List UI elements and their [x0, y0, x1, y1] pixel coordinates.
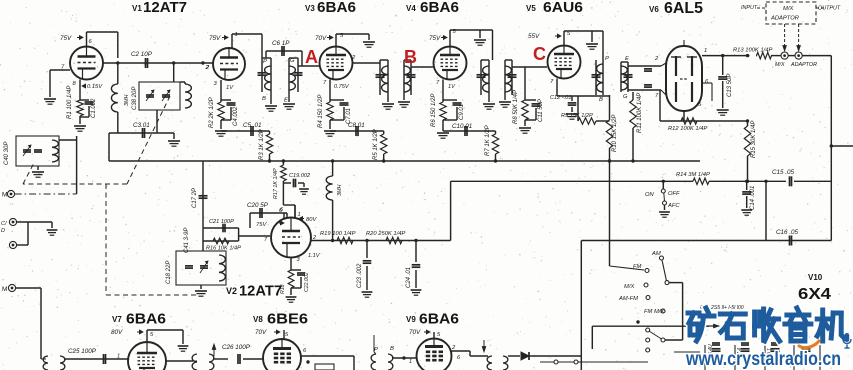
svg-text:80V: 80V	[111, 329, 123, 336]
svg-text:12AT7: 12AT7	[239, 283, 282, 300]
svg-text:6BA6: 6BA6	[317, 0, 356, 16]
svg-text:C14 .001: C14 .001	[750, 186, 756, 210]
svg-text:V9: V9	[406, 315, 416, 324]
svg-text:INPUT: INPUT	[741, 5, 758, 11]
svg-text:AM-FM: AM-FM	[618, 296, 638, 302]
svg-text:C11 50P: C11 50P	[538, 99, 544, 122]
svg-text:3MH: 3MH	[337, 185, 343, 196]
svg-text:1: 1	[117, 354, 120, 360]
svg-text:C5 .01: C5 .01	[243, 122, 262, 129]
svg-text:E: E	[625, 56, 629, 62]
svg-text:C16 .05: C16 .05	[776, 229, 799, 236]
svg-text:6BA6: 6BA6	[420, 0, 459, 16]
svg-text:75V: 75V	[256, 222, 267, 228]
svg-text:R3 1K 1/2P: R3 1K 1/2P	[259, 129, 265, 160]
svg-text:6AU6: 6AU6	[543, 0, 583, 16]
svg-text:70V: 70V	[315, 35, 327, 42]
svg-text:12AT7: 12AT7	[143, 0, 187, 16]
svg-text:M: M	[2, 192, 7, 199]
svg-text:B: B	[599, 97, 603, 103]
svg-text:www.crystalradio.cn: www.crystalradio.cn	[685, 348, 841, 370]
svg-text:R17 1K 1/4P: R17 1K 1/4P	[273, 168, 279, 199]
svg-text:75V: 75V	[209, 35, 221, 42]
svg-text:C2 10P: C2 10P	[131, 51, 153, 58]
svg-text:3MH: 3MH	[124, 95, 130, 106]
svg-text:ON: ON	[645, 192, 655, 198]
svg-text:C10.01: C10.01	[452, 123, 472, 130]
svg-text:R20 250K 1/4P: R20 250K 1/4P	[366, 231, 405, 237]
svg-text:R8 50K 1/4P: R8 50K 1/4P	[513, 90, 519, 124]
svg-text:C38 20P: C38 20P	[132, 87, 138, 110]
svg-text:R1 100 1/4P: R1 100 1/4P	[67, 86, 73, 119]
svg-text:0.15V: 0.15V	[87, 84, 103, 90]
svg-text:C17 2P: C17 2P	[192, 188, 198, 208]
svg-text:C3.01: C3.01	[133, 122, 150, 129]
svg-text:M/X: M/X	[783, 6, 794, 12]
svg-text:R4 150 1/2P: R4 150 1/2P	[318, 95, 324, 128]
svg-text:R11 100K 1/4P: R11 100K 1/4P	[637, 93, 643, 133]
svg-text:75V: 75V	[60, 35, 72, 42]
svg-text:C41 3-9P: C41 3-9P	[184, 228, 190, 253]
svg-text:V10: V10	[808, 273, 823, 282]
svg-text:80V: 80V	[306, 217, 317, 223]
svg-text:C23 .002: C23 .002	[357, 263, 363, 288]
svg-text:B: B	[390, 346, 394, 352]
svg-text:V2: V2	[226, 286, 237, 296]
svg-text:R6 150 1/2P: R6 150 1/2P	[431, 94, 437, 127]
svg-text:1: 1	[235, 32, 238, 38]
svg-text:R19 100 1/4P: R19 100 1/4P	[320, 231, 356, 237]
svg-text:B: B	[262, 96, 266, 102]
svg-text:70V: 70V	[255, 329, 267, 336]
svg-text:B: B	[404, 47, 417, 67]
svg-text:C4.002: C4.002	[233, 106, 239, 126]
svg-text:R7 1K 1/2P: R7 1K 1/2P	[485, 125, 491, 156]
svg-text:V5: V5	[526, 4, 536, 13]
svg-text:C22.002: C22.002	[304, 272, 310, 292]
svg-text:R10 15K 1/2P: R10 15K 1/2P	[612, 115, 618, 152]
svg-text:C20 5P: C20 5P	[247, 202, 269, 209]
svg-text:75V: 75V	[429, 35, 441, 42]
svg-text:C19.002: C19.002	[289, 173, 311, 179]
svg-text:V7: V7	[112, 315, 122, 324]
svg-text:P: P	[263, 59, 267, 65]
svg-text:55V: 55V	[528, 33, 540, 40]
svg-text:R15 30K 1/4P: R15 30K 1/4P	[751, 121, 757, 158]
svg-text:R2 2K 1/2P: R2 2K 1/2P	[209, 97, 215, 128]
svg-text:R5 1K 1/2P: R5 1K 1/2P	[373, 129, 379, 160]
svg-text:V8: V8	[253, 315, 263, 324]
svg-text:C15 .05: C15 .05	[772, 169, 795, 176]
svg-text:1: 1	[298, 212, 301, 218]
svg-text:C40 30P: C40 30P	[4, 142, 10, 165]
svg-text:V4: V4	[406, 4, 416, 13]
svg-text:C21 100P: C21 100P	[209, 219, 234, 225]
svg-text:FM: FM	[633, 264, 642, 270]
svg-text:6BE6: 6BE6	[267, 311, 308, 328]
svg-text:P: P	[605, 56, 609, 62]
svg-text:C8.01: C8.01	[348, 122, 365, 129]
svg-text:R13 100K 1/4P: R13 100K 1/4P	[733, 48, 772, 54]
svg-text:OFF: OFF	[668, 191, 680, 197]
svg-text:AM: AM	[651, 251, 661, 257]
svg-text:C13 50P: C13 50P	[727, 74, 733, 97]
svg-text:FM M/X: FM M/X	[644, 309, 665, 315]
svg-text:M: M	[2, 286, 7, 293]
svg-text:V1: V1	[132, 4, 142, 13]
svg-text:6BA6: 6BA6	[419, 311, 459, 328]
svg-text:R9 15K 1/2P: R9 15K 1/2P	[561, 113, 593, 119]
svg-text:C25 100P: C25 100P	[68, 348, 97, 355]
svg-text:1.1V: 1.1V	[308, 253, 321, 259]
svg-text:V6: V6	[649, 5, 659, 14]
svg-text:R12 100K 1/4P: R12 100K 1/4P	[668, 126, 707, 132]
svg-text:M/X: M/X	[624, 284, 635, 290]
svg-text:0.75V: 0.75V	[334, 84, 350, 90]
svg-text:C: C	[533, 44, 546, 64]
svg-text:C18 22P: C18 22P	[166, 261, 172, 284]
svg-text:M/X: M/X	[775, 62, 785, 68]
svg-text:D: D	[1, 228, 5, 234]
svg-text:ADAPTOR: ADAPTOR	[770, 16, 800, 22]
svg-text:70V: 70V	[409, 329, 421, 336]
svg-text:G: G	[290, 58, 295, 64]
svg-text:6AL5: 6AL5	[664, 0, 703, 17]
svg-text:ADAPTOR: ADAPTOR	[790, 62, 817, 68]
svg-text:G: G	[623, 94, 628, 100]
svg-text:AFC: AFC	[667, 203, 680, 209]
svg-text:6X4: 6X4	[798, 286, 831, 303]
svg-text:R14 3M 1/4P: R14 3M 1/4P	[676, 172, 710, 178]
svg-text:E: E	[284, 98, 288, 104]
svg-text:A: A	[305, 47, 318, 67]
svg-text:C24 .01: C24 .01	[406, 267, 412, 288]
svg-text:C26 100P: C26 100P	[222, 344, 251, 351]
svg-text:C6 1P: C6 1P	[272, 40, 290, 47]
svg-text:6BA6: 6BA6	[126, 311, 166, 328]
svg-text:C1.002: C1.002	[91, 98, 97, 118]
svg-text:1: 1	[704, 48, 707, 54]
svg-text:C9.01: C9.01	[459, 104, 465, 120]
svg-text:1: 1	[409, 359, 412, 365]
svg-text:V3: V3	[305, 4, 315, 13]
svg-text:1V: 1V	[226, 85, 234, 91]
